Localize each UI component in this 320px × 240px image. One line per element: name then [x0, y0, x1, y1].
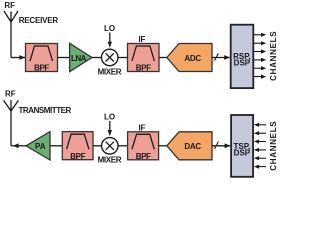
amplifier LNA: [70, 43, 92, 71]
wire channel input arrow 4 (transmitter): [254, 148, 266, 152]
svg-text:DAC: DAC: [184, 142, 201, 151]
wire channel output arrow 3 (receiver): [254, 49, 266, 53]
wire BPF2 to ADC: [159, 57, 167, 59]
wire PA to BPF3: [50, 145, 62, 147]
converter ADC: [167, 44, 212, 72]
bus wire DAC to TSP with slash and arrowhead: [212, 142, 230, 150]
wire channel output arrow 4 (receiver): [254, 58, 266, 62]
wire channel output arrow 6 (receiver): [254, 75, 266, 79]
wire channel output arrow 5 (receiver): [254, 66, 266, 70]
wire antenna to BPF1 with arrowhead: [11, 55, 25, 60]
wire LO arrow into mixer2: [108, 121, 112, 136]
svg-text:PA: PA: [35, 142, 46, 151]
bus wire ADC to RSP with slash and arrowhead: [212, 53, 230, 61]
wire mixer1 to BPF2: [118, 57, 128, 59]
wire BPF3 to mixer2: [93, 145, 102, 147]
svg-text:BPF: BPF: [136, 64, 151, 73]
wire LO arrow into mixer1: [108, 33, 112, 48]
antenna ANT1 (receiver): [4, 11, 18, 58]
wire channel output arrow 2 (receiver): [254, 41, 266, 45]
antenna ANT2 (transmitter): [4, 100, 19, 146]
wire channel input arrow 3 (transmitter): [254, 139, 266, 143]
svg-text:MIXER: MIXER: [98, 156, 122, 165]
svg-text:RECEIVER: RECEIVER: [19, 16, 59, 25]
svg-text:BPF: BPF: [70, 152, 85, 161]
svg-text:LO: LO: [104, 113, 115, 122]
svg-text:DSP: DSP: [234, 58, 251, 67]
svg-text:LO: LO: [104, 24, 115, 33]
svg-text:MIXER: MIXER: [98, 67, 122, 76]
svg-text:RF: RF: [5, 89, 16, 98]
svg-text:BPF: BPF: [136, 152, 151, 161]
wire channel input arrow 5 (transmitter): [254, 156, 266, 160]
wire LNA to mixer1: [92, 57, 101, 59]
svg-text:ADC: ADC: [184, 54, 201, 63]
processor TSP, DSP: [231, 115, 253, 177]
svg-text:DSP: DSP: [234, 149, 251, 158]
wire BPF4 to DAC: [159, 145, 167, 147]
wire PA to antenna with arrowhead: [11, 143, 26, 148]
wire channel input arrow 1 (transmitter): [254, 123, 266, 127]
filter BPF2 (IF bandpass, receiver): [128, 44, 160, 73]
amplifier PA: [26, 132, 50, 160]
svg-text:RF: RF: [4, 1, 15, 10]
svg-text:CHANNELS: CHANNELS: [269, 31, 278, 81]
filter BPF3 (RF bandpass, transmitter): [62, 132, 93, 161]
filter BPF4 (IF bandpass, transmitter): [128, 132, 159, 161]
svg-text:LNA: LNA: [71, 54, 87, 63]
wire channel input arrow 6 (transmitter): [254, 165, 266, 169]
converter DAC: [167, 132, 212, 160]
svg-text:CHANNELS: CHANNELS: [269, 121, 278, 171]
svg-text:BPF: BPF: [34, 64, 49, 73]
wire mixer2 to BPF4: [118, 145, 128, 147]
svg-text:TRANSMITTER: TRANSMITTER: [19, 106, 72, 115]
wire BPF1 to LNA: [58, 57, 70, 59]
processor RSP, DSP: [231, 25, 254, 88]
wire channel output arrow 1 (receiver): [254, 33, 266, 37]
wire channel input arrow 2 (transmitter): [254, 131, 266, 135]
mixer U2 (transmitter): [98, 138, 122, 165]
filter BPF1 (RF bandpass, receiver): [26, 44, 58, 73]
mixer U1 (receiver): [98, 49, 122, 76]
